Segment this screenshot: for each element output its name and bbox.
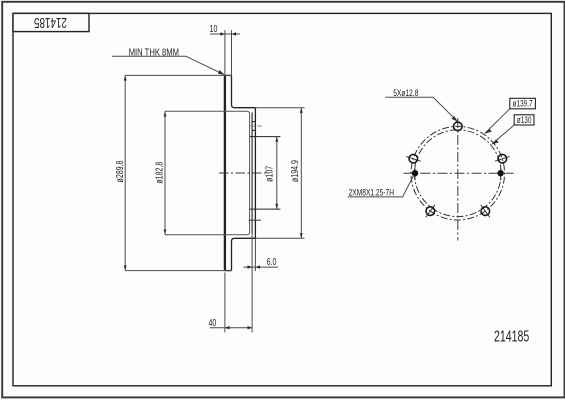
svg-text:ø130: ø130 bbox=[517, 115, 532, 126]
svg-text:ø289.8: ø289.8 bbox=[114, 160, 125, 182]
svg-text:ø194.9: ø194.9 bbox=[289, 160, 300, 182]
svg-text:10: 10 bbox=[210, 23, 218, 34]
svg-text:2XM8X1.25-7H: 2XM8X1.25-7H bbox=[349, 187, 394, 197]
svg-text:MIN THK 8MM: MIN THK 8MM bbox=[129, 46, 179, 57]
svg-text:6.0: 6.0 bbox=[267, 256, 277, 267]
svg-text:ø107: ø107 bbox=[263, 166, 274, 182]
svg-text:ø182.8: ø182.8 bbox=[153, 162, 164, 184]
svg-text:40: 40 bbox=[208, 317, 216, 328]
svg-text:214185: 214185 bbox=[34, 15, 67, 31]
svg-text:ø139.7: ø139.7 bbox=[513, 98, 533, 109]
svg-text:5Xø12.8: 5Xø12.8 bbox=[393, 88, 418, 98]
svg-text:214185: 214185 bbox=[494, 327, 529, 345]
